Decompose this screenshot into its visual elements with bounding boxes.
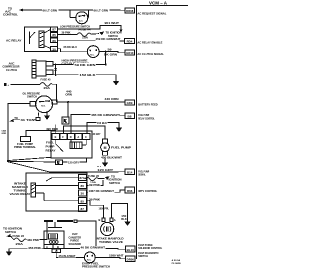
wire 59 DK GRN clutch to tap node [53, 63, 107, 67]
svg-text:RELAY: RELAY [46, 150, 57, 153]
svg-text:439 PNK: 439 PNK [27, 239, 39, 242]
wire 152 BLK relay C to ground [87, 121, 122, 134]
fuel pump motor assembly [101, 139, 132, 156]
fuse F3 [11, 234, 27, 246]
svg-text:152 BLK: 152 BLK [80, 73, 96, 77]
svg-text:RELAY CONTROL: RELAY CONTROL [138, 117, 155, 120]
svg-text:B14: B14 [127, 170, 133, 174]
wire 490 RED prime terminal to pump feed [26, 127, 58, 137]
node TO IGNITION SWITCH lower left [3, 227, 22, 237]
IMTV relay internal coil and contact [31, 178, 79, 201]
svg-text:M: M [104, 146, 107, 150]
motor: A/C compressor clutch [3, 60, 54, 78]
svg-text:PRIME TERMINAL: PRIME TERMINAL [14, 146, 37, 149]
svg-text:FUSE #5: FUSE #5 [41, 77, 51, 81]
wire 439 PNK fuse 3 to purge solenoid [26, 221, 47, 242]
wire purge solenoid feed drop [77, 221, 96, 246]
svg-text:PS 16WB: PS 16WB [172, 263, 181, 265]
svg-text:GRD: GRD [2, 133, 7, 135]
wire fuse 5 to oil pressure switch node [52, 84, 72, 102]
wire 59 DK GRN high pressure switch to VCM AC clutch signal [99, 47, 125, 56]
svg-text:46 DK GRN/WHT: 46 DK GRN/WHT [81, 247, 106, 250]
svg-text:87A: 87A [80, 176, 86, 180]
svg-text:120 GRY: 120 GRY [92, 132, 101, 136]
svg-text:N.C.: N.C. [90, 54, 95, 56]
svg-text:VCM – A: VCM – A [149, 1, 168, 6]
svg-text:152 BLK: 152 BLK [97, 121, 107, 125]
wire 66 LT GRN from A/C control to VCM pin DR08 [23, 8, 125, 12]
svg-text:SOLENOID: SOLENOID [69, 243, 82, 246]
svg-text:SWITCH: SWITCH [138, 255, 148, 258]
svg-text:A.C: A.C [79, 20, 83, 23]
svg-text:39 PNK: 39 PNK [89, 198, 100, 201]
A/C relay internal coil and contact [30, 30, 51, 49]
wire 39 PNK with fuse 4 to ignition switch [58, 28, 122, 40]
svg-text:120 GRY: 120 GRY [97, 168, 113, 172]
wire 46 DK GRN/WHT to VCM purge control [62, 246, 126, 250]
svg-text:D: D [70, 135, 72, 139]
terminal box below purge solenoid [52, 249, 60, 253]
pin RD4 AC relay enable [125, 38, 163, 44]
wire through in-line connector to 120 GRY fuel pump signal [8, 158, 125, 172]
node TO A/C CONTROL [3, 7, 23, 17]
svg-text:IMTV CONTROL: IMTV CONTROL [138, 189, 157, 193]
wire 1589 WHT pressure switch to VCM diagnostic pin [95, 253, 125, 258]
svg-text:AC CLUTCH SIGNAL: AC CLUTCH SIGNAL [137, 52, 164, 56]
svg-text:FUEL PUMP: FUEL PUMP [111, 145, 131, 149]
svg-text:1367 DK GRN/WHT: 1367 DK GRN/WHT [89, 190, 115, 193]
wire from relay 87A through fuse 6 to ignition [85, 174, 122, 185]
svg-text:66 DK BLU: 66 DK BLU [64, 45, 78, 49]
svg-text:PUMP: PUMP [46, 146, 56, 149]
svg-text:TO: TO [14, 116, 18, 120]
svg-text:A: A [46, 245, 48, 249]
svg-text:A: A [77, 135, 79, 139]
svg-text:GR10: GR10 [126, 51, 134, 55]
svg-text:AC REQUEST SIGNAL: AC REQUEST SIGNAL [137, 11, 166, 15]
fuse F5 [40, 77, 52, 89]
svg-text:SWITCH: SWITCH [109, 181, 120, 185]
wire 450 BLK/WHT pump to ground [97, 155, 123, 167]
svg-text:N.O.: N.O. [41, 106, 46, 108]
svg-text:SIGNAL: SIGNAL [138, 174, 146, 177]
switch: EVAP fuel pressure switch [82, 252, 110, 268]
relay: fuel pump relay [46, 131, 93, 158]
pin DR06 EVAP diagnostic switch [126, 252, 159, 262]
svg-text:459 DK GRN/WHT: 459 DK GRN/WHT [96, 37, 121, 41]
wire 456 PNK solenoid A to ground [6, 246, 44, 256]
wire 440 ORN battery feed to VCM pin GR9 [57, 97, 125, 103]
wire 31 TAN oil switch to gauge pointer [9, 112, 40, 122]
splice node at cab ground run [7, 157, 51, 162]
connector symbol on pump relay feed [62, 117, 69, 124]
svg-text:465 DK GRN/WHT: 465 DK GRN/WHT [91, 113, 119, 117]
svg-text:GR9: GR9 [127, 101, 133, 105]
wire oil switch left to cab ground run [2, 103, 31, 162]
wire oil switch node down to fuel pump relay pin E [56, 102, 68, 134]
pin R66 IMTV control [125, 187, 157, 193]
switch: A/C low pressure switch [60, 10, 90, 28]
pin BL10 EVAP purge solenoid control [126, 244, 163, 252]
pin B8 fuel pump relay control [125, 113, 155, 120]
wire 120 GRY relay F to fuel pump [63, 126, 105, 139]
battery feed B+ node [4, 83, 40, 87]
svg-text:RD4: RD4 [127, 40, 133, 44]
switch: oil pressure switch [23, 91, 57, 112]
diode across clutch coil [54, 64, 57, 76]
wire 465 DK GRN/WHT relay D to VCM fuel pump relay control [71, 113, 125, 134]
svg-text:39 PNK: 39 PNK [62, 30, 71, 34]
ground G compressor clutch [113, 81, 119, 85]
pin GR10 AC clutch signal [125, 50, 164, 56]
wire 152 BLK clutch to ground [53, 73, 116, 81]
switch: high pressure cut-out switch [62, 46, 100, 66]
svg-text:BATTERY FEED: BATTERY FEED [138, 102, 158, 106]
svg-text:B: B [99, 218, 101, 222]
svg-text:BL10: BL10 [127, 248, 135, 252]
svg-text:450 BLK/WHT: 450 BLK/WHT [101, 156, 123, 159]
svg-text:N.C.: N.C. [87, 260, 92, 262]
svg-text:901 WHT: 901 WHT [105, 21, 120, 25]
svg-text:AC RELAY: AC RELAY [6, 38, 22, 42]
svg-text:FUSE #6: FUSE #6 [88, 174, 100, 178]
pin B14 fuel pump signal [125, 169, 149, 176]
sheet number text [172, 259, 181, 265]
svg-text:CLUTCH: CLUTCH [6, 68, 17, 72]
svg-text:456 PNK: 456 PNK [28, 247, 41, 250]
svg-text:59: 59 [108, 47, 113, 51]
wire 150 BLK valve to ground [111, 204, 130, 226]
box: fuel pump prime terminal [14, 137, 37, 150]
svg-text:490 RED: 490 RED [46, 127, 58, 131]
svg-text:20A: 20A [16, 242, 24, 246]
ground below oil pressure switch [44, 112, 50, 120]
svg-text:E: E [55, 135, 57, 139]
svg-text:31 TAN: 31 TAN [21, 118, 35, 122]
svg-text:DR08: DR08 [126, 9, 134, 13]
wire tap from node down to compressor clutch [105, 52, 107, 65]
svg-text:TUNING: TUNING [14, 189, 27, 193]
svg-text:10A: 10A [82, 36, 88, 40]
svg-text:R66: R66 [127, 189, 133, 193]
svg-text:INTAKE: INTAKE [14, 181, 26, 185]
relay K: A/C relay [6, 27, 58, 52]
svg-text:4 20 94: 4 20 94 [172, 259, 181, 262]
wire 451 BLK/WHT terminal to pressure switch [56, 253, 84, 259]
svg-text:440 ORN: 440 ORN [105, 97, 119, 101]
svg-text:B8: B8 [128, 114, 133, 118]
wire 901 WHT from relay 87 to ignition switch pointer [58, 21, 123, 33]
svg-text:FUEL PUMP: FUEL PUMP [17, 144, 34, 146]
wire 66 DK BLU relay 30 to high pressure switch [58, 45, 88, 52]
svg-text:20A: 20A [44, 86, 51, 90]
svg-text:66 LT GRN: 66 LT GRN [94, 9, 109, 13]
svg-text:SOLENOID CONTROL: SOLENOID CONTROL [138, 247, 162, 250]
svg-text:ORN: ORN [65, 93, 72, 97]
solenoid: intake manifold tuning valve [96, 218, 124, 244]
svg-text:DR06: DR06 [127, 257, 135, 261]
relay: intake manifold tuning valve relay [10, 173, 88, 211]
svg-text:FUSE #3: FUSE #3 [13, 234, 25, 238]
svg-text:SWITCH: SWITCH [27, 95, 37, 99]
svg-text:TUNING VALVE: TUNING VALVE [99, 240, 123, 244]
svg-text:66 LT GRN: 66 LT GRN [43, 9, 58, 13]
svg-text:A: A [114, 218, 116, 222]
svg-text:C: C [85, 135, 87, 139]
solenoid: EVAP canister purge solenoid [44, 220, 81, 249]
svg-text:1589 WHT: 1589 WHT [109, 254, 124, 257]
wire 39 PNK relay 86 up to ignition feed [87, 180, 104, 187]
svg-text:39 PNK: 39 PNK [89, 184, 100, 187]
svg-text:FUSE #4: FUSE #4 [79, 28, 92, 32]
svg-text:1050 PPL: 1050 PPL [99, 206, 110, 210]
wire 1367 DK GRN/WHT relay 30 to VCM IMTV control [87, 189, 126, 193]
svg-text:VALVE RELAY: VALVE RELAY [10, 192, 31, 196]
svg-text:59 DK GRN: 59 DK GRN [75, 63, 96, 67]
svg-text:BLK: BLK [121, 218, 127, 221]
svg-text:CONTROL: CONTROL [3, 13, 18, 17]
svg-text:AC RELAY ENABLE: AC RELAY ENABLE [137, 41, 162, 45]
svg-text:451 BLK/WHT: 451 BLK/WHT [59, 255, 77, 258]
svg-text:120 GRY: 120 GRY [68, 161, 79, 165]
wire 459 DK GRN/WHT relay 86 to VCM AC relay enable [58, 37, 125, 41]
wire 39 PNK relay 85 to tuning valve [87, 197, 110, 218]
VCM connector A vertical bus [136, 1, 188, 259]
svg-text:FUEL: FUEL [46, 142, 55, 145]
pin DR08 AC request [125, 8, 167, 16]
pin GR9 battery feed [125, 100, 158, 107]
svg-text:SWITCH: SWITCH [5, 230, 16, 234]
